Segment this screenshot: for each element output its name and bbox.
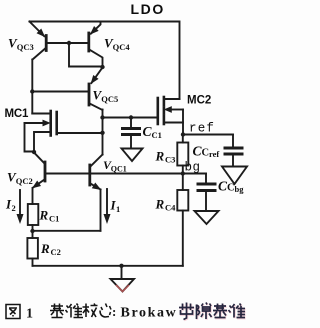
svg-text:MC2: MC2 bbox=[187, 95, 211, 107]
svg-text:QC4: QC4 bbox=[113, 42, 131, 52]
junction base tie bbox=[67, 41, 71, 45]
label VQC1 bbox=[103, 158, 127, 174]
svg-text:Brokaw: Brokaw bbox=[121, 306, 178, 321]
resistor RC4 bbox=[182, 174, 184, 191]
wire VQC3 collector down to MC1 source bbox=[31, 60, 33, 114]
svg-text:1: 1 bbox=[116, 204, 120, 214]
junction CC1 tap bbox=[129, 115, 133, 119]
svg-text:QC3: QC3 bbox=[17, 42, 34, 52]
CJK char HE (core) bbox=[83, 304, 98, 318]
svg-text:C4: C4 bbox=[165, 203, 176, 213]
svg-text:ref: ref bbox=[189, 122, 215, 136]
transistor VQC3 bbox=[45, 36, 48, 51]
svg-text:C3: C3 bbox=[165, 155, 175, 165]
CJK char JI (base) bbox=[50, 304, 64, 318]
capacitor CC1 bbox=[130, 118, 132, 128]
ground (CCbg) bbox=[195, 211, 219, 224]
label VQC5 bbox=[93, 88, 119, 105]
label bg bbox=[185, 161, 201, 175]
junction gate node upper bbox=[100, 115, 104, 119]
CJK char JI (base) bbox=[213, 304, 227, 318]
svg-text:2: 2 bbox=[12, 203, 16, 213]
current arrow I2 bbox=[19, 190, 21, 215]
label MC1 bbox=[5, 108, 29, 120]
wire VQC1 emitter return bbox=[33, 230, 101, 232]
label RC1 bbox=[39, 208, 60, 224]
wire to MC2 gate bbox=[103, 117, 158, 119]
svg-text:C2: C2 bbox=[51, 247, 61, 257]
junction ref bbox=[181, 132, 185, 136]
resistor RC2 bbox=[27, 238, 38, 259]
svg-text:QC5: QC5 bbox=[101, 94, 118, 104]
current arrow I1 bbox=[106, 189, 108, 215]
transistor MC1 bbox=[49, 111, 52, 118]
CJK char XIN (heart) bbox=[100, 304, 111, 318]
svg-text:MC1: MC1 bbox=[5, 108, 29, 120]
svg-text:C1: C1 bbox=[152, 130, 162, 140]
svg-text:R: R bbox=[39, 208, 49, 223]
junction gate node lower bbox=[100, 131, 104, 135]
wire bottom rail bbox=[33, 265, 183, 267]
label VQC2 bbox=[7, 170, 33, 187]
resistor RC1 bbox=[28, 204, 39, 225]
label RC3 bbox=[155, 149, 176, 165]
junction VQC4 collector / VQC5 emitter bbox=[100, 65, 104, 69]
svg-text:bg: bg bbox=[235, 184, 245, 194]
label VQC4 bbox=[104, 36, 130, 53]
svg-text:C: C bbox=[202, 148, 210, 159]
node bg wire (bases of VQC1/VQC2 to RC3/RC4 and CCbg) bbox=[46, 173, 206, 175]
transistor VQC5 bbox=[88, 84, 91, 105]
svg-text:R: R bbox=[155, 197, 165, 212]
junction MC1 source / VQC2 collector bbox=[32, 150, 36, 154]
wire top supply rail LDO bbox=[30, 22, 180, 100]
label RC2 bbox=[40, 241, 61, 257]
node LDO label bbox=[131, 1, 165, 17]
transistor VQC1 bbox=[88, 165, 91, 185]
svg-text:QC2: QC2 bbox=[16, 176, 33, 186]
svg-text:bg: bg bbox=[185, 161, 201, 175]
label ref bbox=[189, 122, 215, 136]
junction RC1/RC2 and VQC1 emitter return bbox=[30, 229, 34, 233]
label I1 bbox=[110, 198, 121, 215]
svg-text:R: R bbox=[155, 149, 165, 164]
svg-text:QC1: QC1 bbox=[111, 165, 127, 174]
CJK char XI (gap) bbox=[197, 303, 212, 320]
ground (CCref) bbox=[222, 167, 247, 185]
junction bg bbox=[181, 171, 185, 175]
svg-text::: : bbox=[112, 304, 116, 319]
svg-text:ref: ref bbox=[209, 149, 219, 159]
capacitor CCbg bbox=[205, 174, 207, 183]
CJK char ZHUN (standard) bbox=[66, 304, 84, 318]
transistor VQC2 bbox=[44, 162, 47, 181]
CJK char DAI (band) bbox=[179, 303, 194, 320]
highlighted caption 带隙基准 (pink fringe) bbox=[180, 303, 246, 320]
label CCbg bbox=[218, 179, 244, 195]
resistor RC3 bbox=[182, 135, 184, 143]
CJK char ZHUN (standard) bbox=[229, 304, 246, 318]
capacitor CCref bbox=[232, 135, 234, 147]
junction ground tap bbox=[119, 264, 123, 268]
wire base tie VQC3/VQC4 to VQC4 collector bbox=[48, 42, 88, 44]
transistor VQC4 bbox=[87, 33, 90, 51]
junction VQC3 collector node bbox=[30, 89, 34, 93]
label VQC3 bbox=[8, 36, 34, 53]
label CC1 bbox=[143, 124, 162, 140]
caption 图 1 基准核心:Brokaw 带隙基准 bbox=[6, 305, 20, 319]
transistor MC2 bbox=[157, 98, 160, 124]
wire gate node vertical (VQC5 collector to VQC1 collector) bbox=[102, 110, 104, 155]
node ref wire bbox=[183, 134, 233, 136]
ground (main) bbox=[121, 266, 123, 279]
wire MC1 gate bbox=[58, 132, 103, 134]
svg-text:1: 1 bbox=[26, 307, 33, 322]
svg-text:C1: C1 bbox=[49, 214, 59, 224]
CJK char TU (figure) bbox=[6, 305, 20, 319]
svg-text:LDO: LDO bbox=[131, 1, 165, 17]
svg-text:C: C bbox=[227, 183, 235, 194]
label I2 bbox=[5, 197, 16, 214]
label CCref bbox=[193, 144, 220, 160]
label RC4 bbox=[155, 197, 177, 213]
ground (CC1) bbox=[122, 149, 143, 162]
label MC2 bbox=[187, 95, 211, 107]
wire VQC5 base to VQC3 collector bbox=[32, 91, 88, 93]
svg-text:R: R bbox=[40, 241, 50, 256]
